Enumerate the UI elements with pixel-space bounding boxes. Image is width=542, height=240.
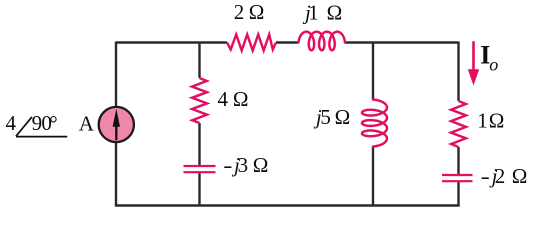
current source arrow (115, 125, 117, 140)
capacitor C -j3ohm plate top (184, 165, 216, 167)
wire branch2 top (372, 42, 374, 101)
svg-text:o: o (489, 54, 498, 74)
svg-text:2Ω: 2Ω (234, 0, 265, 24)
wire branch2 bottom (372, 147, 374, 207)
svg-text:90°: 90° (32, 111, 58, 135)
capacitor C -j2ohm plate top (442, 174, 473, 176)
wire Lj1 to top-right corner (345, 41, 459, 43)
svg-text:1Ω: 1Ω (477, 109, 504, 133)
current source circle (99, 107, 134, 142)
angle symbol underline (16, 136, 67, 138)
wire branch1 bottom (198, 173, 200, 207)
wire top-left to R2 (116, 41, 227, 43)
wire right between R1 and C2 (457, 147, 459, 175)
wire right below C2 (457, 182, 459, 207)
wire left vertical above source (115, 42, 117, 108)
wire branch1 top (198, 42, 200, 79)
svg-text:4: 4 (6, 111, 17, 135)
wire branch1 middle (198, 123, 200, 166)
wire right vertical above R1 (457, 42, 459, 102)
capacitor C -j3ohm plate bottom (184, 171, 216, 173)
wire bottom (115, 204, 460, 206)
inductor L j5ohm (362, 100, 387, 147)
inductor L j1ohm (299, 32, 346, 51)
current arrow Io (472, 41, 475, 71)
svg-text:-j2Ω: -j2Ω (481, 164, 528, 188)
resistor R 2ohm (227, 35, 276, 51)
svg-text:4Ω: 4Ω (218, 87, 249, 111)
svg-text:A: A (79, 111, 95, 135)
svg-text:j5Ω: j5Ω (313, 105, 350, 129)
wire between R2 and L j1 (276, 41, 298, 43)
resistor R 4ohm (192, 78, 207, 123)
capacitor C -j2ohm plate bottom (442, 180, 473, 182)
svg-text:-j3Ω: -j3Ω (223, 153, 268, 177)
svg-text:j1Ω: j1Ω (302, 0, 342, 24)
wire left vertical below source (115, 141, 117, 207)
resistor R 1ohm (451, 101, 466, 147)
angle symbol diagonal (16, 117, 32, 136)
